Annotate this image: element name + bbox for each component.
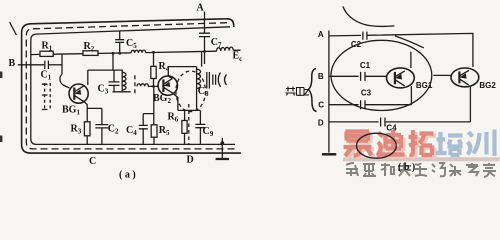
- svg-text:C: C: [89, 156, 96, 167]
- capacitor C2b: [363, 32, 367, 40]
- big shield ellipse: [331, 40, 432, 110]
- svg-text:B: B: [9, 58, 16, 69]
- watermark gray text: [346, 163, 496, 177]
- capacitor C7: [199, 33, 210, 36]
- watermark blue: pei: [436, 132, 463, 155]
- resistor R6: [184, 110, 186, 144]
- stray mark top-left: [10, 22, 17, 35]
- resistor R1: [40, 51, 53, 56]
- coupling arcs: [218, 73, 226, 87]
- svg-text:B: B: [318, 72, 324, 81]
- svg-text:C3: C3: [361, 88, 372, 97]
- wire row D: [329, 121, 471, 123]
- arc top: [343, 6, 395, 26]
- inductor L1: [131, 50, 146, 53]
- transistor BG1: [69, 84, 88, 103]
- svg-text:C4: C4: [386, 124, 397, 133]
- wire emitter down BG1: [84, 101, 102, 124]
- left rail: [328, 31, 330, 153]
- wire emitter BG2: [173, 93, 201, 111]
- watermark big red: di: [379, 132, 407, 158]
- arc mid: [395, 36, 424, 48]
- wire row B: [329, 75, 387, 77]
- output transformer T2 primary: [196, 67, 198, 89]
- capacitor C9: [199, 110, 201, 144]
- svg-text:A: A: [318, 30, 324, 39]
- ground: [220, 141, 224, 145]
- small ellipse: [357, 133, 397, 158]
- capacitor C8: [213, 75, 216, 85]
- bias divider wire: [143, 86, 154, 125]
- svg-text:D: D: [187, 155, 194, 166]
- inductor L2: [216, 47, 233, 51]
- capacitor C2: [95, 125, 108, 128]
- ground bar: [322, 153, 336, 156]
- svg-text:C1: C1: [360, 61, 371, 70]
- wire B entry: [18, 64, 44, 66]
- transformer T1 core: [134, 75, 136, 95]
- svg-text:BG2: BG2: [479, 81, 496, 90]
- wire collector bus stage1: [88, 70, 123, 85]
- wire supply row: [31, 50, 241, 54]
- edge artifact lower: [0, 136, 2, 143]
- junction node drop: [112, 52, 115, 55]
- capacitor C4b: [381, 118, 385, 127]
- watermark big red: yi: [346, 134, 374, 159]
- transformer T1 secondary: [137, 84, 158, 87]
- label common impedance Z: [286, 87, 305, 96]
- watermark blue: xun: [468, 130, 495, 157]
- brace: [309, 69, 317, 112]
- ground bus loop: [31, 27, 235, 145]
- transistor BG2: [158, 76, 177, 95]
- transformer T1 primary: [121, 70, 123, 91]
- resistor R4: [152, 51, 155, 54]
- shield dashed ellipse: [176, 71, 206, 112]
- capacitor C5: [119, 31, 121, 53]
- capacitor C3: [113, 70, 115, 92]
- capacitor C4: [139, 125, 148, 128]
- wire row A: [329, 33, 473, 67]
- resistor R3: [84, 122, 90, 136]
- wire C7 junction to T2: [202, 51, 205, 66]
- capacitor C1b: [361, 72, 365, 81]
- watermark underline band: [343, 157, 500, 161]
- svg-text:( b ): ( b ): [398, 162, 415, 173]
- svg-text:( a ): ( a ): [119, 170, 136, 181]
- svg-text:D: D: [318, 118, 324, 127]
- svg-text:A: A: [197, 3, 205, 14]
- watermark big red: tuo: [411, 132, 436, 157]
- svg-text:C: C: [318, 101, 324, 110]
- wire base squiggle: [60, 54, 70, 88]
- wire A down: [204, 12, 206, 52]
- T2 bottom wire: [196, 89, 198, 111]
- shield dashed border: [26, 23, 238, 149]
- capacitor C3b: [361, 100, 365, 109]
- wire collector BG2: [168, 67, 196, 79]
- shield box outer border: [22, 19, 241, 153]
- resistor R2: [83, 51, 98, 56]
- capacitor C1: [45, 61, 49, 69]
- svg-text:Z: Z: [304, 87, 310, 97]
- edge artifact upper: [0, 72, 2, 79]
- wire row C: [329, 104, 412, 106]
- resistor R5: [151, 125, 157, 137]
- dashed element below C1: [45, 83, 51, 111]
- transistor BG2b: [451, 68, 479, 87]
- transistor BG1b: [387, 68, 415, 88]
- watermark: [343, 130, 500, 178]
- wire tank bottom: [113, 91, 131, 93]
- dashed drop to bus: [188, 104, 190, 144]
- transformer T2 core: [207, 72, 210, 89]
